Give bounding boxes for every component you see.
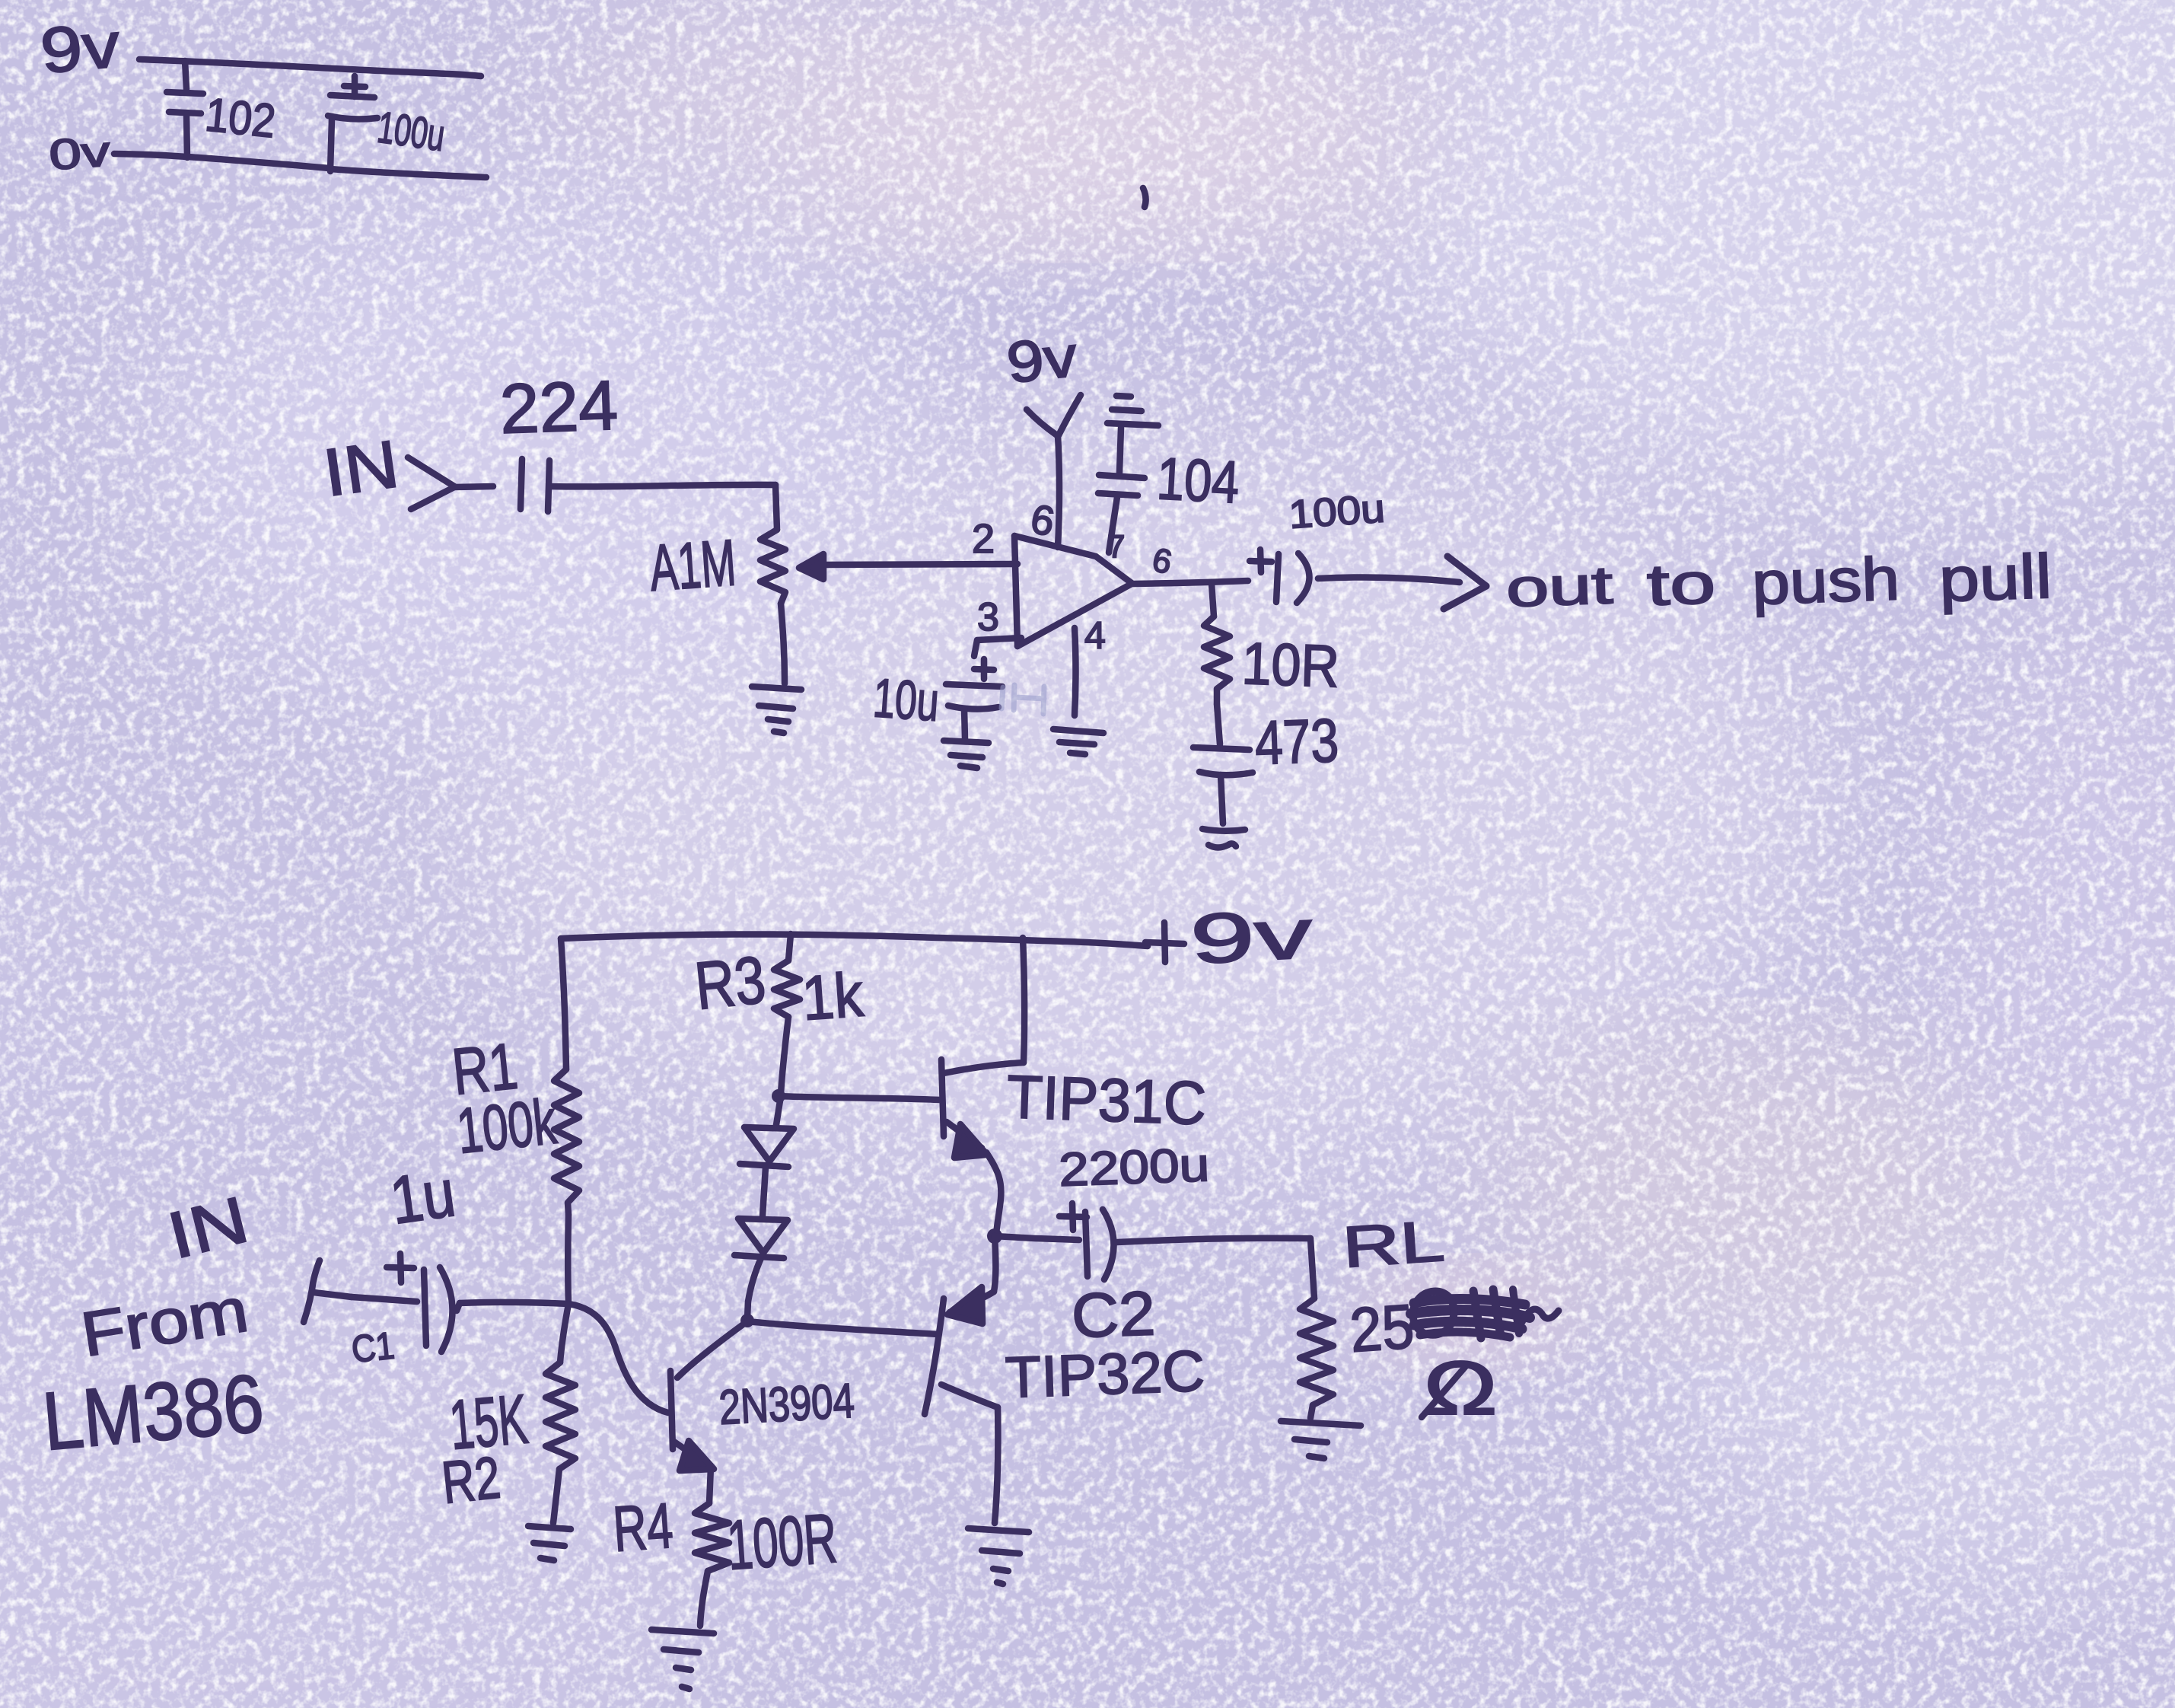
svg-text:100u: 100u <box>374 103 447 161</box>
svg-text:R3: R3 <box>692 942 769 1024</box>
svg-text:A1M: A1M <box>648 526 738 605</box>
svg-text:100k: 100k <box>454 1085 560 1167</box>
svg-text:2N3904: 2N3904 <box>718 1373 856 1435</box>
svg-text:Ω: Ω <box>1423 1346 1498 1431</box>
svg-text:2200u: 2200u <box>1058 1139 1210 1197</box>
svg-text:25: 25 <box>1348 1292 1416 1365</box>
svg-text:10R: 10R <box>1240 629 1340 699</box>
svg-text:104: 104 <box>1155 445 1240 516</box>
svg-text:102: 102 <box>203 88 279 148</box>
svg-text:10u: 10u <box>871 668 941 733</box>
svg-text:out: out <box>1505 555 1614 618</box>
svg-text:R2: R2 <box>439 1443 504 1515</box>
svg-text:9v: 9v <box>1189 895 1314 979</box>
svg-text:C1: C1 <box>349 1324 396 1371</box>
svg-text:224: 224 <box>498 367 619 448</box>
svg-text:3: 3 <box>977 595 999 639</box>
svg-text:to: to <box>1646 551 1717 618</box>
svg-text:push: push <box>1750 544 1900 617</box>
svg-text:pull: pull <box>1938 542 2052 615</box>
svg-text:TIP31C: TIP31C <box>1005 1063 1207 1137</box>
svg-text:R4: R4 <box>611 1490 675 1565</box>
svg-text:LM386: LM386 <box>39 1356 266 1467</box>
svg-text:9v: 9v <box>37 8 123 87</box>
svg-text:9v: 9v <box>1004 324 1080 396</box>
svg-text:4: 4 <box>1084 614 1106 657</box>
svg-text:0v: 0v <box>47 127 111 179</box>
svg-text:100u: 100u <box>1288 486 1387 537</box>
svg-text:2: 2 <box>972 516 995 562</box>
svg-text:1k: 1k <box>800 961 866 1034</box>
svg-text:TIP32C: TIP32C <box>1005 1339 1206 1410</box>
svg-text:473: 473 <box>1253 706 1339 778</box>
svg-text:100R: 100R <box>724 1499 839 1585</box>
svg-text:1u: 1u <box>386 1155 460 1238</box>
svg-text:7: 7 <box>1107 528 1125 564</box>
svg-text:RL: RL <box>1340 1209 1447 1280</box>
svg-text:IN: IN <box>319 425 403 511</box>
